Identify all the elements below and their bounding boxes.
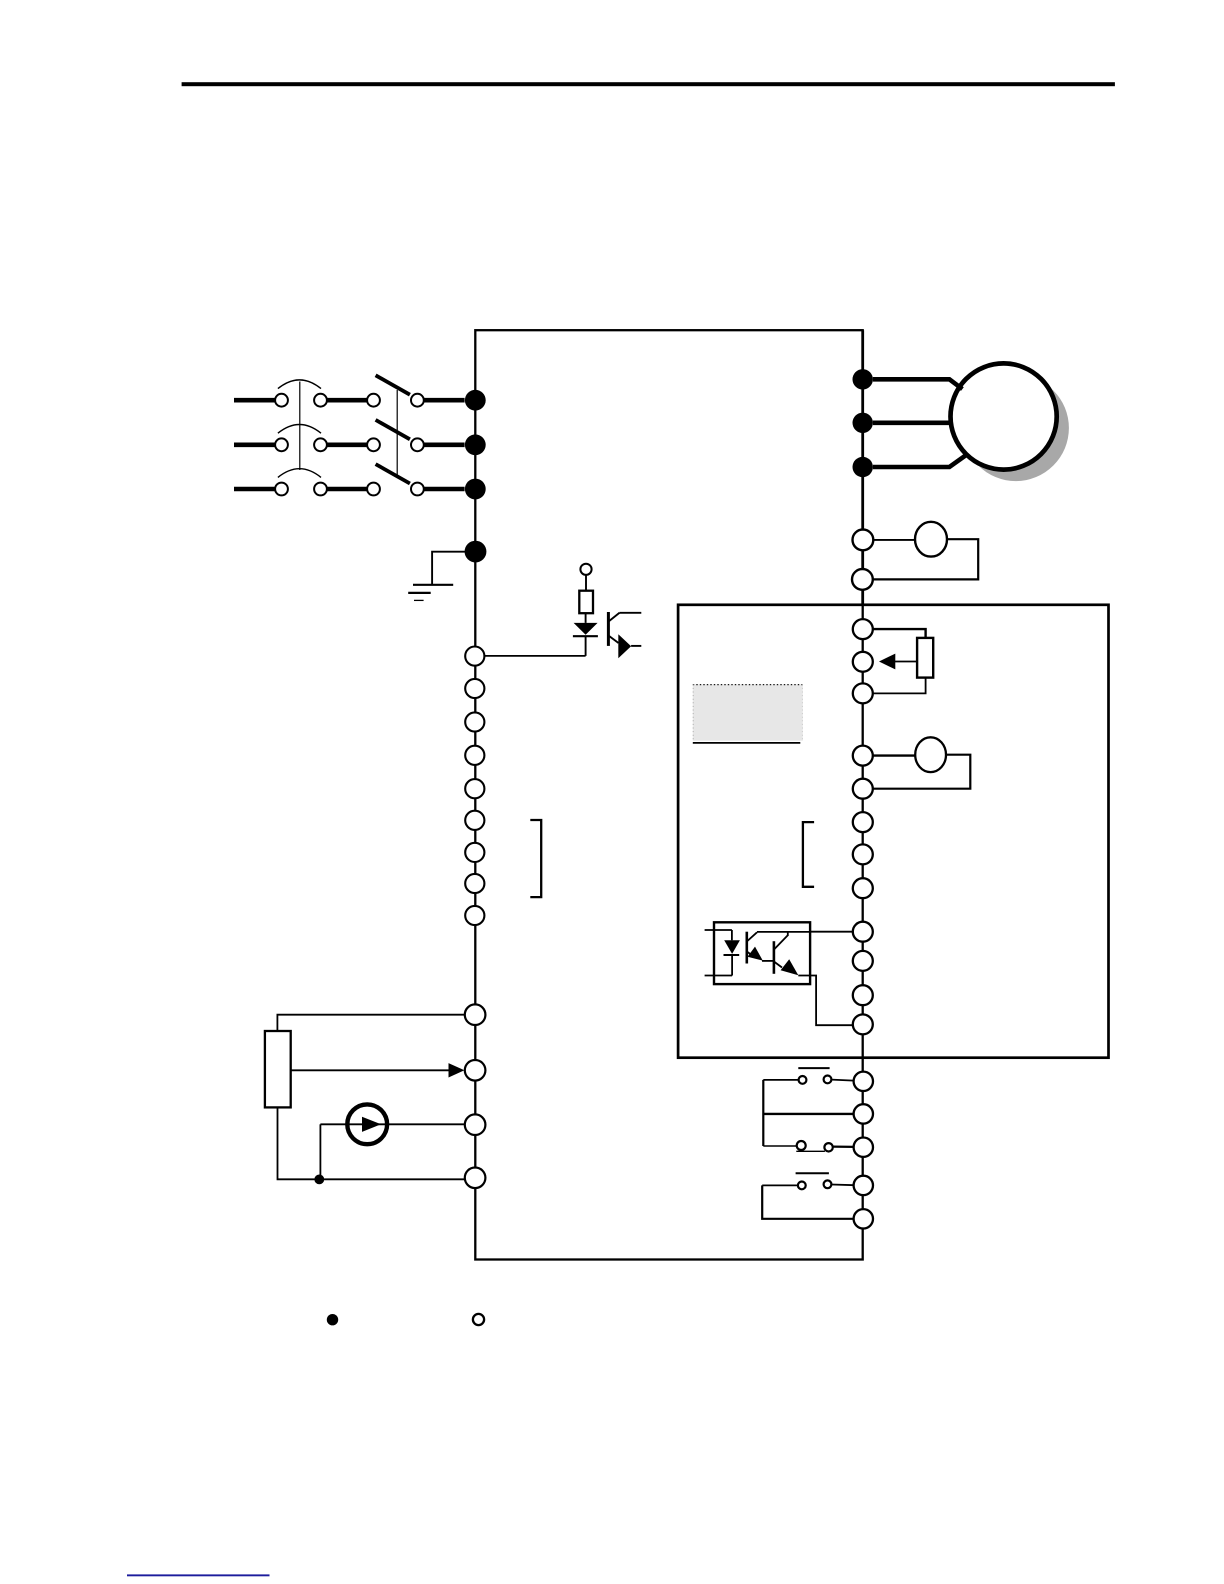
- junction common node: [314, 1175, 324, 1185]
- wire opto emitter to MG terminal: [798, 976, 853, 1026]
- wire B1 to DB unit: [873, 539, 915, 541]
- terminal T (main): [465, 479, 486, 500]
- MCCB thin vertical tie line: [299, 382, 301, 471]
- circuit breaker MCCB pole R: [275, 380, 380, 407]
- footer link underline (page furniture): [127, 1574, 270, 1576]
- terminal E ground: [465, 541, 487, 563]
- motor M: [951, 363, 1057, 469]
- wire ground lead: [432, 552, 465, 585]
- motor shadow: [963, 375, 1069, 481]
- contactor MC pole S: [376, 420, 465, 451]
- wire pot wiper: [895, 661, 917, 663]
- wire V1 terminal to speed pot top: [871, 629, 925, 638]
- terminal M3: [465, 712, 484, 731]
- external input source: pull-up circle: [580, 564, 591, 575]
- frequency meter: [915, 737, 946, 772]
- wire opto collector to MO terminal: [810, 931, 853, 933]
- DB resistor unit: [915, 522, 947, 557]
- wire VR terminal to external pot top: [277, 1015, 464, 1031]
- terminal U: [853, 369, 873, 389]
- wire FM terminal to meter: [871, 754, 915, 756]
- legend filled terminal symbol: [327, 1314, 338, 1325]
- terminal MG: [853, 1014, 873, 1034]
- terminal 30B: [854, 1138, 873, 1157]
- resistor external: [579, 591, 593, 614]
- bracket input terminal group: [530, 820, 541, 897]
- terminal CM2: [465, 906, 484, 925]
- terminal M1: [465, 647, 484, 666]
- terminal I input: [465, 1114, 486, 1135]
- terminal FM: [853, 746, 873, 766]
- terminal V1: [853, 652, 873, 672]
- terminal M5: [465, 779, 484, 798]
- potentiometer external speed: [265, 1031, 291, 1107]
- terminal comm 2: [853, 844, 873, 864]
- terminal M2: [465, 679, 484, 698]
- terminal M4: [465, 746, 484, 765]
- optocoupler output isolator: [705, 922, 811, 984]
- legend open terminal symbol: [473, 1314, 484, 1325]
- wire R input lead: [234, 398, 276, 403]
- relay contact 30A (NO): [763, 1068, 854, 1084]
- inverter body outline: [475, 330, 862, 1259]
- diode LED input: [573, 623, 598, 656]
- terminal R (main): [465, 390, 486, 411]
- wire resistor to diode: [585, 613, 587, 623]
- pot wiper arrow: [879, 654, 895, 670]
- wire relay common to 30C: [763, 1113, 854, 1115]
- terminal B2: [852, 569, 873, 590]
- current source 4-20mA loop: [320, 1104, 464, 1179]
- terminal RX: [465, 843, 484, 862]
- contactor MC pole R: [376, 375, 465, 406]
- terminal comm 1: [853, 812, 873, 832]
- wire V to motor: [873, 420, 953, 425]
- ground symbol: [408, 585, 453, 601]
- terminal MG out: [854, 1209, 873, 1228]
- relay contact 30B (NC): [763, 1141, 854, 1152]
- terminal CM: [465, 874, 484, 893]
- terminal V1+: [853, 619, 873, 639]
- contactor MC thin vertical tie line: [396, 390, 398, 477]
- contactor MC pole T: [376, 464, 465, 495]
- wire main bus right upper segment: [861, 330, 864, 605]
- terminal B1: [853, 530, 874, 551]
- wire external pot wiper: [291, 1069, 449, 1071]
- external pot wiper arrow: [449, 1063, 465, 1077]
- wire external pot bottom to common: [278, 1107, 466, 1179]
- wire W to motor: [873, 456, 966, 468]
- terminal V: [853, 413, 873, 433]
- terminal 30C: [854, 1104, 873, 1123]
- wire meter loop to common: [871, 755, 970, 789]
- terminal 5G: [853, 683, 873, 703]
- header rule (page furniture): [182, 82, 1115, 86]
- circuit breaker MCCB pole T: [275, 469, 380, 496]
- terminal comm 3: [853, 878, 873, 898]
- terminal MO out: [854, 1176, 873, 1195]
- terminal 5G meter return: [853, 779, 873, 799]
- wire input common to external transistor: [484, 655, 585, 657]
- bracket comm terminal group: [803, 822, 814, 887]
- terminal MO: [853, 922, 873, 942]
- wire pull-up to resistor: [585, 575, 587, 591]
- potentiometer speed reference: [917, 638, 933, 678]
- terminal 5G common: [465, 1168, 486, 1189]
- terminal FX: [465, 811, 484, 830]
- terminal S (main): [465, 434, 486, 455]
- note box (shaded): [693, 684, 803, 743]
- terminal VR: [465, 1004, 486, 1025]
- relay contact MO (NO): [762, 1173, 854, 1189]
- wire U to motor: [873, 379, 963, 389]
- wire DB unit loop: [873, 539, 978, 579]
- circuit breaker MCCB pole S: [275, 425, 380, 452]
- wire relay common rail: [762, 1080, 764, 1146]
- terminal 24: [853, 985, 873, 1005]
- wire speed pot bottom to common: [871, 678, 925, 694]
- terminal EXTG: [853, 951, 873, 971]
- wire MO return rail: [762, 1185, 853, 1218]
- wire S input lead: [234, 442, 276, 447]
- phototransistor external: [608, 612, 641, 658]
- control circuit box: [678, 605, 1108, 1058]
- terminal 30A: [854, 1072, 873, 1091]
- wire T input lead: [234, 487, 276, 492]
- terminal V1 input: [465, 1060, 486, 1081]
- terminal W: [853, 457, 873, 477]
